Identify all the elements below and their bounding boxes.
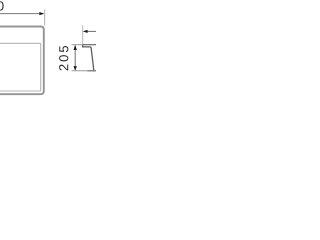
depth dimension arrowhead (points left) (83, 30, 88, 33)
side view profile (step + slanted back edge, cropped at right) (83, 45, 94, 70)
bottom extension line of height dimension (72, 70, 89, 72)
front view outer outline (rounded top-right / bottom-right corners, cropped at left) (0, 27, 44, 95)
top dimension extension line (44, 10, 46, 26)
top dimension text (cropped digit 0) (0, 1, 4, 10)
front view inner screen rectangle (cropped at left) (0, 43, 41, 91)
side view front-face extension line (82, 25, 84, 45)
depth dimension line from right (cropped) (84, 30, 96, 32)
height dimension down arrowhead (74, 66, 77, 71)
side view top edge (cropped at right) (83, 44, 96, 46)
top dimension arrowhead (points right) (39, 12, 44, 15)
top width dimension line (0, 13, 43, 15)
side view bottom edge (cropped at right) (88, 70, 97, 72)
height dimension text 205 (rotated) (59, 46, 68, 70)
top extension line of height dimension (72, 44, 84, 46)
height dimension line (vertical) (74, 46, 76, 70)
background (0, 0, 96, 96)
height dimension up arrowhead (74, 45, 77, 50)
